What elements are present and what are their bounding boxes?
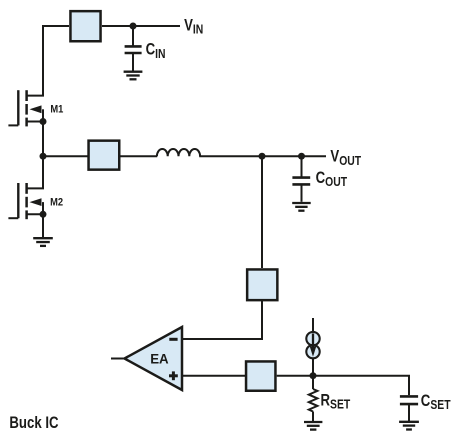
capacitor COUT	[292, 178, 310, 185]
block U1 (top control block)	[70, 11, 100, 41]
wire VIN node to CIN	[132, 26, 134, 46]
transistor M1	[8, 90, 44, 126]
wire current source top stub	[312, 318, 314, 333]
wire U3 to EA inverting input	[182, 301, 262, 339]
wire EA output stub	[111, 358, 124, 360]
wire RSET node to CSET	[313, 376, 409, 395]
wire EA non-inverting input to block U4	[182, 375, 245, 377]
transistor M2	[8, 183, 44, 219]
wire RSET node down to resistor	[312, 376, 314, 389]
wire CSET to ground	[408, 404, 410, 421]
block U4 (reference block)	[246, 361, 275, 390]
EA plus sign	[169, 371, 178, 380]
svg-text:COUT: COUT	[316, 169, 348, 190]
resistor RSET	[309, 389, 318, 412]
wire FB node down to block U3	[261, 156, 263, 268]
svg-text:VIN: VIN	[184, 16, 203, 37]
wire RSET to ground	[312, 412, 314, 422]
ground (CIN)	[124, 72, 143, 80]
block U3 (feedback block)	[247, 269, 277, 300]
capacitor CIN	[125, 46, 142, 53]
ground (CSET)	[399, 422, 419, 430]
current source I1	[306, 332, 319, 358]
svg-text:VOUT: VOUT	[330, 147, 361, 168]
svg-text:M2: M2	[50, 197, 63, 209]
node RSET junction dot	[310, 372, 317, 379]
svg-text:CSET: CSET	[421, 391, 451, 412]
wire M1 source to switch node	[42, 122, 44, 157]
wire from block U1 right to VIN terminal	[102, 25, 180, 27]
wire SW node down to M2 drain	[42, 156, 44, 189]
wire current source to RSET node	[312, 358, 314, 376]
inductor L1	[157, 149, 200, 156]
svg-text:EA: EA	[150, 351, 169, 366]
svg-text:RSET: RSET	[321, 391, 351, 412]
ground (COUT)	[292, 203, 311, 211]
svg-text:Buck IC: Buck IC	[9, 413, 58, 432]
op-amp EA (error amplifier)	[125, 327, 183, 390]
ground (M2)	[33, 238, 53, 246]
node VIN junction dot	[130, 23, 137, 30]
node M2 source dot	[40, 211, 47, 218]
node M1 source dot	[40, 118, 47, 125]
wire U2 to inductor	[120, 155, 157, 157]
svg-text:M1: M1	[50, 104, 63, 116]
svg-text:CIN: CIN	[146, 40, 166, 61]
node SW junction dot	[40, 153, 47, 160]
wire CIN to ground	[132, 53, 134, 71]
wire M2 source to ground	[42, 214, 44, 237]
wire VOUT node to COUT	[301, 156, 303, 176]
wire inductor to VOUT terminal	[199, 155, 326, 157]
wire from top block left down to M1 drain	[43, 26, 69, 96]
wire U4 to RSET node	[277, 375, 313, 377]
wire COUT to ground	[301, 184, 303, 201]
wire SW node to block U2	[43, 155, 88, 157]
EA minus sign	[169, 338, 177, 341]
ground (RSET)	[304, 422, 322, 430]
node FB junction dot	[259, 153, 266, 160]
node VOUT junction dot	[298, 153, 305, 160]
capacitor CSET	[400, 396, 418, 404]
block U2 (gate driver block)	[89, 141, 120, 170]
